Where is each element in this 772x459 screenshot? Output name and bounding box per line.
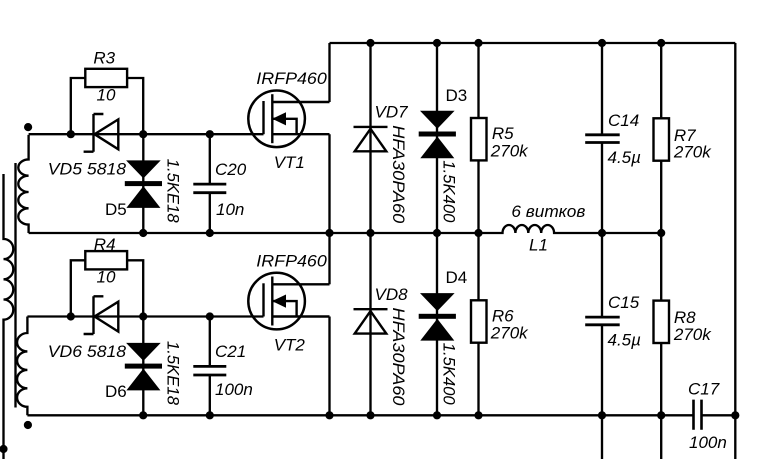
svg-text:1.5KE18: 1.5KE18 — [164, 341, 183, 406]
svg-text:R3: R3 — [93, 48, 115, 67]
wire bottom rail left part — [27, 414, 693, 416]
capacitor C20 — [193, 184, 226, 193]
svg-text:270k: 270k — [490, 141, 529, 160]
TVS diode D3 — [420, 111, 455, 129]
wire R7/R8 column — [660, 43, 662, 459]
transistor VT1 arrow — [273, 113, 285, 125]
transformer secondary winding A — [18, 135, 28, 233]
svg-text:R5: R5 — [492, 124, 514, 143]
svg-text:D5: D5 — [105, 200, 127, 219]
svg-text:VD8: VD8 — [375, 285, 409, 304]
wire VT1 source drop — [328, 134, 330, 233]
capacitor C21 — [193, 366, 226, 375]
transformer T1 primary winding — [4, 174, 14, 459]
svg-text:R6: R6 — [492, 306, 514, 325]
capacitor C20 leads — [209, 134, 211, 233]
wire VT2 source drop — [328, 317, 330, 416]
resistor R4 — [85, 251, 127, 269]
wire VT2 drain riser — [328, 233, 330, 284]
transistor VT2 — [248, 273, 329, 330]
svg-text:100n: 100n — [689, 433, 727, 452]
wire VT1 drain riser — [328, 43, 330, 102]
diode VD5 — [84, 114, 119, 152]
wire VD7/VD8 column — [369, 43, 371, 415]
resistor R3 — [85, 69, 127, 87]
svg-text:VD7: VD7 — [375, 103, 409, 122]
transistor VT1 — [248, 91, 329, 148]
resistor R4 leads — [71, 260, 143, 316]
svg-text:VT2: VT2 — [274, 336, 306, 355]
capacitor C17 — [694, 400, 702, 430]
svg-text:270k: 270k — [673, 325, 712, 344]
svg-text:D3: D3 — [446, 86, 468, 105]
wire R5/R6 column — [477, 43, 479, 415]
wire top gate net — [29, 133, 264, 135]
svg-text:6 витков: 6 витков — [511, 202, 585, 221]
capacitor C21 leads — [209, 317, 211, 416]
svg-text:VD5 5818: VD5 5818 — [48, 160, 127, 179]
node dots top rail — [366, 39, 374, 47]
svg-text:C15: C15 — [608, 293, 640, 312]
svg-text:C20: C20 — [215, 160, 247, 179]
node dot winding A polarity — [24, 123, 32, 131]
svg-text:270k: 270k — [490, 324, 529, 343]
wire top rail — [330, 42, 736, 44]
svg-text:IRFP460: IRFP460 — [256, 251, 327, 270]
transformer secondary winding B — [17, 317, 27, 416]
svg-text:100n: 100n — [215, 380, 253, 399]
wire right edge vertical — [734, 43, 736, 459]
svg-text:C21: C21 — [215, 342, 246, 361]
svg-text:1.5K400: 1.5K400 — [440, 343, 459, 406]
TVS diode D6 leads — [142, 317, 144, 416]
node dots bottom gate net — [67, 312, 75, 320]
resistor R3 leads — [71, 78, 143, 134]
transformer core — [14, 163, 16, 408]
resistor R8 — [654, 301, 670, 343]
TVS diode D5 — [126, 160, 161, 178]
node dots bottom rail — [139, 411, 147, 419]
wire middle net with inductor L1 — [29, 225, 662, 233]
svg-text:D4: D4 — [446, 268, 468, 287]
svg-text:IRFP460: IRFP460 — [256, 69, 327, 88]
wire D3/D4 column — [436, 43, 438, 415]
svg-text:10n: 10n — [216, 200, 244, 219]
svg-text:L1: L1 — [529, 235, 548, 254]
svg-text:HFA30PA60: HFA30PA60 — [389, 125, 408, 224]
capacitor C15 — [585, 317, 620, 325]
node dots middle net — [139, 229, 147, 237]
svg-text:1.5KE18: 1.5KE18 — [164, 159, 183, 224]
svg-text:HFA30PA60: HFA30PA60 — [389, 308, 408, 407]
node dot primary lead — [0, 445, 8, 453]
resistor R5 — [471, 118, 487, 160]
node dots top gate net — [67, 130, 75, 138]
svg-text:10: 10 — [97, 268, 116, 287]
wire bottom rail right part — [702, 414, 736, 416]
svg-text:C17: C17 — [688, 380, 720, 399]
TVS diode D4 — [420, 293, 455, 311]
node dot winding B polarity — [24, 421, 32, 429]
svg-text:C14: C14 — [608, 111, 639, 130]
diode VD8 — [354, 309, 388, 333]
svg-text:1.5K400: 1.5K400 — [440, 160, 459, 223]
svg-text:4.5µ: 4.5µ — [608, 148, 642, 167]
svg-text:4.5µ: 4.5µ — [608, 330, 642, 349]
transistor VT2 arrow — [273, 295, 285, 307]
svg-text:VD6 5818: VD6 5818 — [48, 342, 127, 361]
svg-text:R4: R4 — [94, 235, 116, 254]
TVS diode D6 — [126, 343, 161, 361]
diode VD6 — [84, 296, 119, 334]
resistor R6 — [471, 300, 487, 342]
svg-text:10: 10 — [97, 85, 116, 104]
TVS diode D5 leads — [142, 134, 144, 233]
svg-text:VT1: VT1 — [274, 153, 305, 172]
resistor R7 — [654, 118, 670, 160]
wire C14/C15 column — [601, 43, 603, 459]
svg-text:270k: 270k — [673, 143, 712, 162]
svg-text:D6: D6 — [105, 382, 127, 401]
diode VD7 — [354, 127, 388, 151]
wire bottom gate net — [27, 315, 263, 317]
capacitor C14 — [585, 135, 620, 143]
